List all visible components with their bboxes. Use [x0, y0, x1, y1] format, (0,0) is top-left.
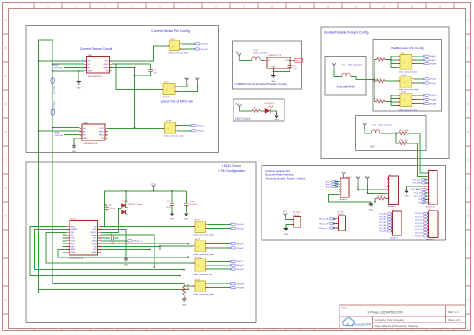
annotation box5 L78M05: [232, 41, 301, 89]
wire LED to gnd: [270, 111, 276, 114]
svg-text:GND4: GND4: [92, 252, 97, 254]
ground INA2: [72, 144, 76, 148]
ground R1: [182, 297, 186, 301]
svg-text:GND: GND: [88, 71, 93, 73]
svg-text:solder_connection: solder_connection: [347, 63, 362, 66]
svg-text:SJ2: SJ2: [373, 125, 376, 127]
wire riser SC7A: [391, 95, 398, 105]
svg-text:100 nF: 100 nF: [109, 208, 115, 210]
svg-text:Enc3: Enc3: [326, 187, 332, 189]
svg-text:PU1_A2: PU1_A2: [379, 218, 386, 221]
resistor PU1_A: [374, 78, 397, 83]
header J3 Header 8: [390, 210, 402, 240]
svg-text:PhaU2: PhaU2: [237, 228, 244, 230]
svg-text:PhaW1: PhaW1: [237, 284, 245, 286]
svg-text:Header 8: Header 8: [426, 238, 434, 241]
wire J5 pin6 loop to gnd: [329, 194, 371, 202]
resistor PU1_B: [374, 99, 391, 103]
svg-text:IN2: IN2: [71, 243, 74, 245]
svg-text:OUT2: OUT2: [71, 241, 76, 243]
svg-text:SEN3: SEN3: [92, 241, 96, 243]
capacitor C10: [273, 60, 296, 71]
svg-text:GND: GND: [124, 264, 129, 266]
svg-text:L6234: L6234: [70, 219, 76, 221]
wire VS to AC71: [101, 226, 194, 228]
net flag Phase_C: [319, 227, 335, 230]
svg-text:HallU: HallU: [430, 56, 436, 58]
svg-text:GND: GND: [404, 196, 409, 198]
op-amp U8 INA240 upper wires left: [39, 61, 84, 68]
connector AC74: [193, 279, 214, 296]
svg-text:solder_connection_tripple: solder_connection_tripple: [193, 234, 213, 237]
wire OUT3: [101, 243, 188, 245]
annotation box6 LED circuit: [233, 99, 284, 121]
wire INA2 OUT to connector JST2: [108, 127, 165, 129]
svg-text:REF2: REF2: [99, 135, 104, 137]
net flag PhaV2: [230, 247, 244, 250]
svg-text:REV: 1.0: REV: 1.0: [448, 310, 459, 314]
wire VCC rail: [105, 191, 187, 227]
net flag PhaU2: [194, 48, 209, 51]
net flag HallV: [423, 59, 436, 62]
capacitor C8: [184, 191, 198, 212]
svg-text:PU1_D5: PU1_D5: [415, 229, 422, 231]
connector AC74A: [193, 256, 213, 276]
I2C power flag: [363, 123, 367, 129]
header J1 Header 10: [426, 169, 438, 209]
terminal block TB_PWR: [283, 211, 301, 227]
svg-text:3.3 or 5v: 3.3 or 5v: [163, 96, 170, 99]
LED D2 LED 0603_R: [265, 103, 276, 113]
svg-text:+ Pin Configuration: + Pin Configuration: [218, 169, 245, 173]
resistor PU1_SCL: [399, 140, 427, 176]
title block: [340, 305, 466, 329]
svg-text:GND: GND: [284, 234, 289, 236]
solder jumper SC79: [239, 50, 267, 60]
svg-text:PU1_D7: PU1_D7: [415, 236, 422, 238]
svg-text:GND: GND: [182, 305, 187, 307]
svg-text:PhaV1: PhaV1: [237, 243, 244, 245]
header J4 Header 8: [426, 209, 438, 241]
svg-text:PhaU2: PhaU2: [201, 49, 208, 51]
svg-text:GND2: GND2: [71, 252, 76, 254]
net flag Phase_B rotated: [51, 102, 55, 116]
svg-text:VBOOT: VBOOT: [90, 232, 96, 234]
connector JST1 solder_connection_triple: [167, 39, 188, 55]
svg-text:PU1_SDA: PU1_SDA: [399, 129, 409, 132]
resistor R1: [183, 284, 190, 297]
svg-text:PhaV2: PhaV2: [237, 248, 244, 250]
net flag HaC3: [423, 102, 437, 105]
svg-text:select Vdc of MPU use: select Vdc of MPU use: [161, 100, 193, 104]
svg-text:solder_connection_four: solder_connection_four: [193, 273, 212, 276]
wire AC74A pins to flags: [208, 261, 231, 269]
svg-text:L6234 Circuit: L6234 Circuit: [222, 164, 241, 168]
svg-text:Current Sense Circuit: Current Sense Circuit: [80, 47, 112, 51]
svg-text:GND: GND: [184, 219, 189, 221]
svg-text:HallW: HallW: [430, 63, 437, 65]
net flag Phase_B: [319, 222, 335, 225]
net flag HallW: [423, 62, 437, 65]
wire riser SJ3: [391, 56, 398, 67]
connector SC7B: [398, 75, 419, 91]
wire EN3: [101, 248, 150, 250]
op-amp INA2 INA240A2PWR: [80, 121, 108, 145]
net flag PhaW1: [230, 283, 245, 286]
svg-text:solder_connection_triple: solder_connection_triple: [169, 52, 188, 55]
wire AC72 pins to flags: [208, 243, 231, 248]
svg-text:solder_connection: solder_connection: [378, 124, 393, 127]
svg-text:PU1_A6: PU1_A6: [379, 230, 386, 233]
net labels J4 pins: [415, 213, 422, 237]
svg-text:solder_connection_triple: solder_connection_triple: [164, 135, 183, 138]
annotation box4 pullups config: [321, 27, 449, 159]
regulator U3 L78M05: [265, 55, 293, 70]
wire GND to TB_PWR: [286, 225, 292, 227]
ground LED: [274, 113, 278, 117]
power 3.3V: [366, 177, 370, 183]
svg-text:PU1_D0: PU1_D0: [415, 213, 422, 215]
net flag Phase_A: [319, 218, 335, 221]
svg-text:TITLE:: TITLE:: [341, 308, 348, 310]
svg-text:solder_connection: solder_connection: [253, 52, 268, 55]
junction dots: [38, 60, 40, 62]
net flag PhaV1: [230, 242, 244, 245]
net flag PhaU2: [230, 227, 245, 230]
svg-text:PinA3: PinA3: [430, 102, 437, 105]
svg-text:H: H: [467, 215, 469, 218]
solder jumper SJ2: [365, 124, 399, 134]
svg-text:TB_PWR: TB_PWR: [293, 212, 302, 214]
wire short stubs header10 flags: [425, 180, 427, 203]
wire pullup bus vertical: [373, 60, 375, 102]
wire JST3 to power: [177, 84, 197, 92]
svg-text:Phase_B: Phase_B: [319, 223, 328, 225]
header J5 ENC: [339, 177, 353, 201]
svg-text:EncA: EncA: [430, 78, 436, 81]
svg-text:GND: GND: [271, 67, 276, 69]
wire phase verticals into nest: [39, 283, 194, 293]
svg-text:Phase_C: Phase_C: [319, 228, 328, 230]
wire SENSE3 to flag: [101, 240, 127, 242]
EasyEDA logo: [343, 318, 372, 327]
svg-text:GND: GND: [77, 87, 82, 89]
annotation sub-box I2C: [356, 115, 426, 150]
svg-text:BAT54S_Cterdal: BAT54S_Cterdal: [129, 203, 144, 206]
wire J5 flag stubs: [335, 182, 339, 187]
net flag HaC2: [423, 98, 437, 101]
net port 5V0 red: [295, 58, 303, 62]
svg-text:D: D: [5, 103, 7, 106]
net flag HaC1: [423, 94, 437, 97]
svg-text:3 Phase L6234PD613TR: 3 Phase L6234PD613TR: [367, 310, 403, 314]
connector SC7A: [398, 91, 418, 112]
header J2 Header 6: [387, 175, 399, 208]
wire gnd to header10: [407, 186, 427, 188]
svg-text:10uF/50v: 10uF/50v: [190, 204, 198, 206]
wire Phase down: [101, 235, 154, 267]
svg-text:solder_connection_tripple: solder_connection_tripple: [193, 253, 213, 256]
net flag Pin2: [230, 264, 244, 267]
power 5V: [195, 78, 199, 84]
connector JST2 lower: [162, 121, 183, 138]
power flag encoder/hall: [332, 63, 336, 69]
ground U8: [77, 80, 81, 84]
svg-text:PU1_SCL: PU1_SCL: [399, 140, 409, 142]
svg-text:SJ1: SJ1: [342, 64, 345, 66]
svg-text:C3: C3: [110, 234, 112, 236]
net flag Phase_A rotated: [51, 78, 56, 95]
svg-text:Current Sense Pin Config: Current Sense Pin Config: [151, 29, 190, 33]
wire phase loop verticals: [39, 40, 53, 293]
svg-text:PU1_D2: PU1_D2: [415, 220, 422, 222]
svg-text:GND: GND: [72, 151, 77, 153]
svg-text:REF1: REF1: [104, 64, 109, 66]
wire JST2 pin wires: [178, 126, 191, 131]
net flag PhaV1: [190, 124, 204, 127]
wire AC72 left: [160, 245, 194, 247]
power VCC rail: [152, 185, 156, 191]
svg-text:LED Circuit: LED Circuit: [235, 117, 251, 121]
svg-text:EN2: EN2: [71, 246, 74, 248]
ground C9: [170, 211, 174, 215]
svg-text:IN-: IN-: [83, 131, 86, 133]
wire U8 REF2 down to lower connector: [112, 68, 135, 128]
svg-text:C10: C10: [293, 66, 296, 68]
svg-text:Header 6: Header 6: [340, 198, 348, 201]
svg-text:Header 8: Header 8: [390, 236, 398, 239]
svg-text:REF2: REF2: [104, 67, 109, 69]
ground loop: [369, 202, 373, 206]
svg-text:GND: GND: [83, 138, 88, 140]
svg-text:Terminal blocks: Power + Motor: Terminal blocks: Power + Motor: [265, 176, 305, 180]
annotation sub-box Hall/Encoder Pin Config: [373, 40, 442, 112]
svg-text:PU1_D3: PU1_D3: [415, 223, 422, 225]
ground header10: [404, 188, 408, 192]
svg-text:solder_connection_four: solder_connection_four: [398, 108, 417, 111]
net flag Phase_C: [126, 240, 143, 243]
svg-text:G: G: [467, 187, 469, 190]
svg-text:EN3: EN3: [93, 249, 96, 251]
svg-text:PhaU1: PhaU1: [237, 224, 244, 226]
svg-text:Company: Your Company: Company: Your Company: [375, 318, 405, 322]
svg-text:10: 10: [429, 202, 431, 204]
svg-text:PU1_SDA: PU1_SDA: [412, 182, 421, 185]
svg-text:PhaX2: PhaX2: [237, 269, 244, 271]
net flag HallU: [423, 55, 436, 58]
wire +5V to header6: [358, 183, 387, 190]
connector AC71: [193, 219, 214, 237]
wire IN3 to AC72: [101, 247, 160, 250]
svg-text:PhaV1: PhaV1: [197, 125, 204, 127]
ground U3: [271, 74, 275, 78]
wire OUT to netport: [293, 59, 295, 61]
svg-text:solder_connection_four: solder_connection_four: [398, 71, 417, 74]
svg-text:10 nF: 10 nF: [166, 207, 172, 209]
svg-text:1k: 1k: [187, 287, 189, 289]
svg-text:OUT3: OUT3: [92, 243, 97, 245]
svg-text:PU1_A4: PU1_A4: [379, 224, 386, 227]
svg-text:Pin1.2: Pin1.2: [430, 95, 437, 97]
ground U1: [124, 257, 128, 261]
net flag Enc2: [326, 183, 338, 186]
capacitor C9: [166, 191, 174, 212]
resistor R2: [375, 195, 387, 202]
svg-text:IN-: IN-: [88, 64, 91, 66]
capacitor C4: [135, 64, 158, 76]
wire REF1 to cap C4: [116, 63, 151, 65]
svg-text:Pin1.7: Pin1.7: [237, 261, 244, 263]
wire GND pin down: [101, 229, 126, 257]
svg-text:H: H: [5, 215, 7, 218]
annotation box2 L6234: [26, 162, 256, 323]
svg-text:PU1_A3: PU1_A3: [379, 221, 386, 224]
svg-text:CUSTOM1: CUSTOM1: [54, 68, 63, 70]
wire INA2 gnd: [74, 138, 80, 144]
svg-text:G: G: [5, 187, 7, 190]
terminal block TB_M1: [336, 212, 345, 231]
svg-text:Date: 2022-01-04 Drawn: Date: 2022-01-04 Drawn By: Potijuing: [375, 324, 419, 328]
svg-text:PU1_A1: PU1_A1: [379, 215, 386, 218]
svg-text:GND: GND: [271, 81, 276, 83]
svg-text:C: C: [5, 75, 7, 78]
resistor PU1_1: [374, 57, 391, 61]
svg-text:REF1: REF1: [99, 131, 104, 133]
annotation box1 Current Sense: [26, 26, 219, 153]
wire TB_M1 stubs: [332, 219, 336, 228]
ground TB_PWR: [284, 226, 288, 230]
capacitor C7A: [105, 204, 116, 212]
svg-text:PU1_A0: PU1_A0: [379, 213, 386, 216]
net flag PhaW2: [230, 286, 245, 289]
svg-text:PU1_12: PU1_12: [414, 196, 421, 198]
svg-text:VCC: VCC: [283, 211, 288, 213]
net flag PhaV2: [190, 130, 204, 133]
svg-text:CUSTOM2: CUSTOM2: [55, 135, 64, 137]
wire VBOOT to diode: [101, 209, 122, 233]
power flag above J5: [342, 172, 346, 178]
annotation sub-box Encoder/Hall: [325, 56, 366, 95]
svg-text:SC79: SC79: [253, 50, 258, 52]
connector JST3 select vdc: [161, 82, 178, 99]
svg-text:Header 10: Header 10: [426, 206, 435, 209]
net labels header10 pins: [411, 179, 424, 204]
op-amp INA2 wires left: [39, 128, 80, 135]
wire AC74 pins to flags: [208, 284, 231, 288]
resistor R3: [252, 108, 265, 113]
svg-text:INA240A2PWR: INA240A2PWR: [84, 142, 98, 145]
net flag EncB: [423, 82, 436, 85]
svg-text:Phase: Phase: [92, 235, 97, 237]
svg-text:C4: C4: [153, 69, 155, 71]
svg-text:PhaX1: PhaX1: [237, 265, 244, 267]
svg-text:Phase_A: Phase_A: [53, 86, 56, 95]
svg-text:Encoder/Hall: Encoder/Hall: [337, 85, 355, 89]
svg-text:PU1_AREF: PU1_AREF: [411, 188, 421, 191]
svg-text:VCC: VCC: [151, 184, 156, 186]
wire SJ3 to flags: [414, 56, 424, 63]
svg-text:GND1: GND1: [71, 226, 76, 228]
svg-text:IN3: IN3: [94, 246, 97, 248]
wire U8 OUT to connector: [112, 46, 169, 61]
net flag PhaU: [194, 43, 209, 46]
net flag Pin3: [230, 268, 244, 271]
resistor PU1_SDA: [399, 129, 427, 173]
wire U8 REF1 down-right to select connector: [112, 64, 163, 89]
net flag Pin1: [230, 260, 244, 263]
solder jumper SJ1: [334, 63, 374, 79]
svg-text:L78M05 Circuit Enable/Disable: L78M05 Circuit Enable/Disable Config: [235, 82, 288, 86]
svg-text:PhaW2: PhaW2: [237, 287, 245, 289]
op-amp U8 INA240A2PWR: [84, 54, 112, 78]
net labels J3 pins: [379, 213, 386, 233]
svg-text:OUT1: OUT1: [71, 238, 76, 240]
svg-text:PU1_D1: PU1_D1: [415, 216, 422, 218]
net flag Enc1: [326, 180, 338, 183]
svg-text:C9: C9: [167, 201, 169, 203]
svg-text:L6234PD013TR: L6234PD013TR: [69, 258, 84, 260]
svg-text:C-cap: C-cap: [190, 201, 195, 203]
wire VCC to TB_PWR: [285, 219, 291, 221]
svg-text:Phase_C: Phase_C: [133, 241, 142, 243]
svg-text:Sheet: 1/1: Sheet: 1/1: [448, 318, 460, 322]
svg-text:Phase_B: Phase_B: [53, 102, 55, 111]
svg-text:PinA2: PinA2: [430, 98, 437, 101]
svg-text:C: C: [467, 75, 469, 78]
wire AC71 pins to flags: [208, 224, 231, 228]
svg-text:EncB: EncB: [430, 83, 436, 85]
net flag PhaU1: [230, 223, 245, 226]
power 3.3V: [185, 78, 189, 84]
svg-text:GND: GND: [170, 219, 175, 221]
svg-text:GND: GND: [369, 209, 374, 211]
svg-text:solder_connection_tripple: solder_connection_tripple: [193, 293, 213, 296]
wire SDA node to SCL: [396, 133, 399, 143]
wire SC7A to flags: [414, 95, 424, 103]
svg-text:SEN2: SEN2: [71, 249, 75, 251]
svg-text:PU1_D4: PU1_D4: [415, 226, 422, 228]
svg-text:EN1: EN1: [71, 232, 74, 234]
svg-text:R1: R1: [187, 284, 189, 286]
svg-text:PU1_A5: PU1_A5: [379, 227, 386, 230]
svg-text:PhaV2: PhaV2: [197, 131, 204, 133]
wire regulator gnd: [272, 70, 274, 73]
annotation box3 Arduino headers: [262, 165, 446, 240]
net flag Enc3: [326, 186, 338, 189]
capacitor C3: [101, 234, 119, 245]
power +5V: [356, 177, 360, 183]
svg-text:Header 6: Header 6: [388, 205, 396, 208]
svg-text:IN1: IN1: [71, 235, 74, 237]
wire JST1 pin wires: [182, 44, 195, 49]
wire 3.3V to header6: [368, 183, 387, 193]
connector AC72: [193, 238, 214, 256]
svg-text:Hall/Encoder Pin Config: Hall/Encoder Pin Config: [391, 46, 424, 50]
svg-text:PU1_D6: PU1_D6: [415, 232, 422, 234]
svg-text:LED 0603_R: LED 0603_R: [265, 103, 276, 105]
svg-text:I2C: I2C: [370, 145, 376, 149]
svg-text:PU1_SCL: PU1_SCL: [413, 179, 421, 181]
wire left pin fanout to bottom nest: [30, 227, 194, 276]
wire U8 gnd: [53, 71, 84, 80]
wire VCC to resistor: [240, 110, 252, 112]
svg-text:D: D: [467, 103, 469, 106]
svg-text:Phase_A: Phase_A: [319, 218, 328, 221]
IC U1 L6234PD013TR: [66, 219, 100, 260]
diode D1 BAT54S: [122, 191, 144, 214]
ground C8: [184, 211, 188, 215]
connector SJ3: [398, 53, 418, 74]
